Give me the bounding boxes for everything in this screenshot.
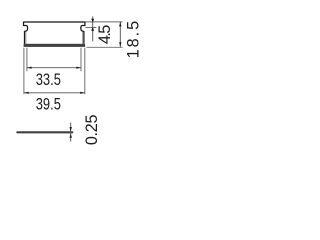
svg-text:18.5: 18.5: [125, 19, 143, 59]
profile right wall with clip hook: [81, 22, 85, 44]
arrow 4.5 top (pointing down): [91, 19, 94, 23]
arrow 0.25 bottom (pointing up): [70, 134, 72, 138]
arrow 39.5 left: [24, 92, 29, 94]
extension line right inner (33.5): [80, 48, 82, 72]
dimension line 4.5: [92, 16, 94, 41]
dimension line 33.5: [27, 67, 81, 69]
svg-text:4.5: 4.5: [96, 25, 114, 44]
extension line hook bottom (4.5): [85, 26, 96, 28]
profile left wall inner surface: [25, 32, 27, 44]
extension line left outer (39.5): [23, 48, 25, 94]
extension line left inner (33.5): [26, 48, 28, 72]
profile top edge: [24, 21, 85, 23]
profile left wall with clip hook: [24, 22, 28, 44]
arrow 0.25 top (pointing down): [70, 127, 72, 131]
arrow 4.5 bottom (pointing up): [91, 27, 94, 31]
dimension line 39.5: [24, 92, 85, 94]
dimension line 18.5: [119, 22, 121, 47]
arrow 33.5 right: [76, 67, 81, 69]
dimension line 0.25: [70, 123, 72, 142]
svg-text:33.5: 33.5: [36, 72, 61, 90]
arrow 18.5 bottom (pointing down): [119, 42, 121, 47]
svg-text:39.5: 39.5: [36, 96, 61, 114]
arrow 39.5 right: [80, 92, 85, 94]
profile thick bottom plate: [24, 44, 86, 47]
extension line top right (at profile top): [85, 21, 122, 23]
thin strip (0.25 sheet): [17, 131, 72, 133]
extension line bottom right (18.5): [87, 46, 123, 48]
profile right wall inner surface: [82, 32, 84, 44]
svg-text:0.25: 0.25: [83, 115, 101, 146]
arrow 18.5 top (pointing up): [119, 22, 121, 27]
arrow 33.5 left: [27, 67, 32, 69]
extension line right outer (39.5): [84, 48, 86, 94]
